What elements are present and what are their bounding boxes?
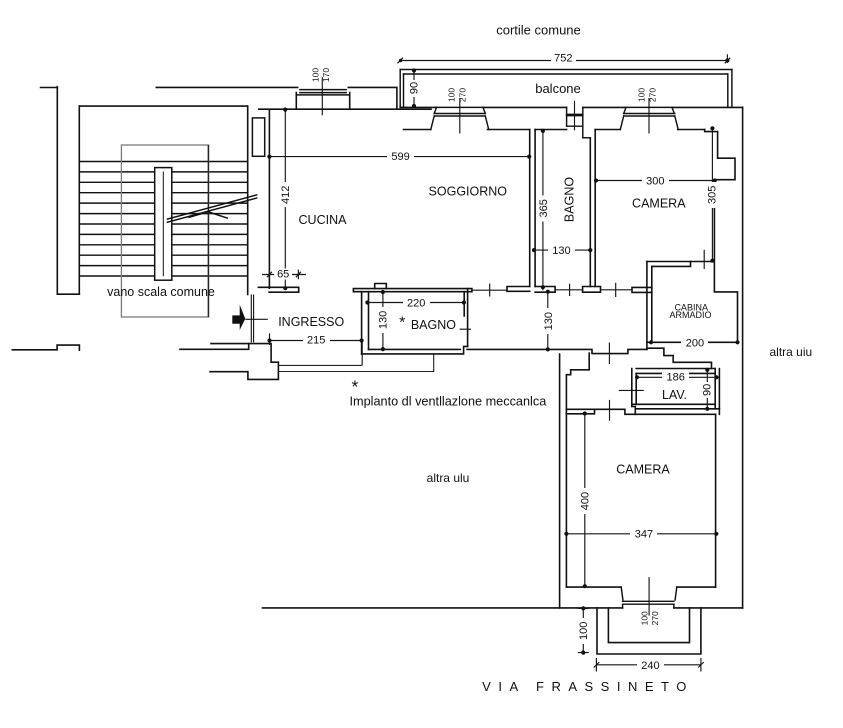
svg-text:*: * bbox=[399, 315, 405, 332]
svg-text:752: 752 bbox=[554, 53, 572, 65]
svg-text:300: 300 bbox=[646, 175, 664, 187]
svg-text:CAMERA: CAMERA bbox=[632, 197, 686, 211]
svg-text:*: * bbox=[352, 377, 359, 397]
svg-text:90: 90 bbox=[409, 82, 421, 94]
svg-text:ARMADIO: ARMADIO bbox=[669, 310, 711, 320]
svg-text:CAMERA: CAMERA bbox=[616, 462, 670, 476]
svg-text:100: 100 bbox=[639, 611, 649, 625]
svg-text:100: 100 bbox=[636, 88, 646, 102]
svg-text:BAGNO: BAGNO bbox=[411, 318, 456, 332]
svg-text:305: 305 bbox=[707, 186, 719, 204]
svg-text:220: 220 bbox=[407, 298, 425, 310]
svg-text:INGRESSO: INGRESSO bbox=[278, 315, 344, 329]
svg-text:100: 100 bbox=[446, 88, 456, 102]
svg-text:BAGNO: BAGNO bbox=[563, 177, 577, 222]
svg-text:240: 240 bbox=[641, 660, 659, 672]
svg-text:270: 270 bbox=[648, 88, 658, 102]
svg-text:LAV.: LAV. bbox=[662, 388, 687, 402]
svg-text:400: 400 bbox=[579, 492, 591, 510]
svg-text:altra ulu: altra ulu bbox=[427, 471, 470, 485]
svg-text:altra uiu: altra uiu bbox=[770, 345, 813, 359]
svg-text:Implanto dl ventllazlone mecca: Implanto dl ventllazlone meccanlca bbox=[350, 395, 548, 409]
svg-text:412: 412 bbox=[280, 186, 292, 204]
svg-text:347: 347 bbox=[635, 529, 653, 541]
svg-text:130: 130 bbox=[543, 312, 555, 330]
svg-text:100: 100 bbox=[578, 622, 590, 640]
svg-text:SOGGIORNO: SOGGIORNO bbox=[429, 185, 508, 199]
svg-text:90: 90 bbox=[702, 384, 714, 396]
svg-text:CUCINA: CUCINA bbox=[299, 213, 348, 227]
svg-text:270: 270 bbox=[458, 88, 468, 102]
svg-text:balcone: balcone bbox=[535, 81, 581, 96]
svg-text:270: 270 bbox=[650, 611, 660, 625]
svg-text:215: 215 bbox=[307, 334, 325, 346]
svg-text:130: 130 bbox=[378, 311, 390, 329]
svg-text:365: 365 bbox=[538, 199, 550, 217]
svg-text:cortile comune: cortile comune bbox=[496, 23, 581, 38]
svg-text:599: 599 bbox=[391, 151, 409, 163]
svg-text:170: 170 bbox=[321, 68, 331, 82]
svg-text:130: 130 bbox=[552, 245, 570, 257]
svg-text:VIA FRASSINETO: VIA FRASSINETO bbox=[482, 679, 694, 694]
svg-text:vano scala comune: vano scala comune bbox=[107, 285, 215, 299]
svg-text:186: 186 bbox=[667, 372, 685, 384]
svg-text:100: 100 bbox=[310, 68, 320, 82]
svg-text:200: 200 bbox=[686, 337, 704, 349]
svg-text:65: 65 bbox=[277, 269, 289, 281]
